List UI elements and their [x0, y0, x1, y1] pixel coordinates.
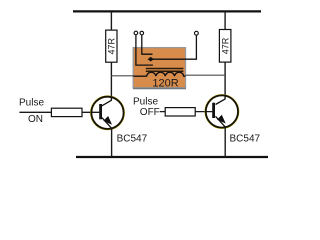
svg-text:47R: 47R [220, 37, 230, 54]
relay body (orange box) [133, 48, 186, 89]
wire contact A to lower fixed contact [136, 35, 153, 65]
wire Q1 emitter to ground rail [111, 129, 113, 158]
wire common terminal to armature [153, 35, 197, 59]
wire right collector branch (rail to R2, R2 to Q2 collector) [224, 11, 226, 99]
wire pulse OFF input to R4 [160, 111, 165, 113]
svg-text:120R: 120R [152, 77, 178, 89]
label ON [28, 114, 43, 125]
wire coil right lead (relay box to Q2 collector node) [185, 74, 225, 76]
label OFF [140, 107, 160, 118]
wire R4 to Q2 base [195, 111, 212, 113]
wire contact B to upper fixed contact [142, 35, 153, 54]
inductor L1 coil 120R (four humps) [133, 72, 185, 76]
resistor R4 (pulse OFF series, horizontal) [165, 108, 195, 116]
resistor R1 47R (left, vertical) [106, 30, 117, 62]
svg-text:47R: 47R [107, 37, 117, 54]
resistor R3 (pulse ON series, horizontal) [51, 108, 82, 116]
wire left collector branch (rail to R1, R1 to Q1 collector) [110, 11, 112, 100]
relay armature arrow (diamond pointing at contacts) [148, 57, 154, 62]
label BC547 (right) [230, 134, 261, 145]
svg-text:ON: ON [28, 114, 43, 125]
wire Q2 emitter to ground rail [224, 127, 226, 157]
label BC547 (left) [117, 134, 148, 145]
relay contact terminal A (small circle, left) [134, 31, 138, 35]
svg-text:Pulse: Pulse [133, 96, 158, 107]
resistor R2 47R (right, vertical) [219, 30, 231, 63]
svg-text:BC547: BC547 [230, 134, 261, 145]
wire top supply rail [73, 10, 261, 12]
label Pulse (right) [133, 96, 158, 107]
wire R3 to Q1 base [82, 111, 99, 113]
wire coil left lead (Q1 collector node to relay box) [111, 75, 133, 77]
transistor Q1 BC547 (left NPN) [91, 96, 124, 129]
relay common terminal C (small circle, right) [195, 31, 199, 35]
relay contact terminal B (small circle, middle) [140, 31, 144, 35]
wire bottom ground rail [76, 156, 268, 158]
svg-text:BC547: BC547 [117, 134, 148, 145]
svg-text:OFF: OFF [140, 107, 160, 118]
svg-text:Pulse: Pulse [19, 98, 44, 109]
label Pulse (left) [19, 98, 44, 109]
relay core bars [146, 69, 184, 72]
label 120R [152, 77, 178, 89]
transistor Q2 BC547 (right NPN) [205, 95, 238, 128]
wire pulse ON input to R3 [19, 111, 51, 113]
